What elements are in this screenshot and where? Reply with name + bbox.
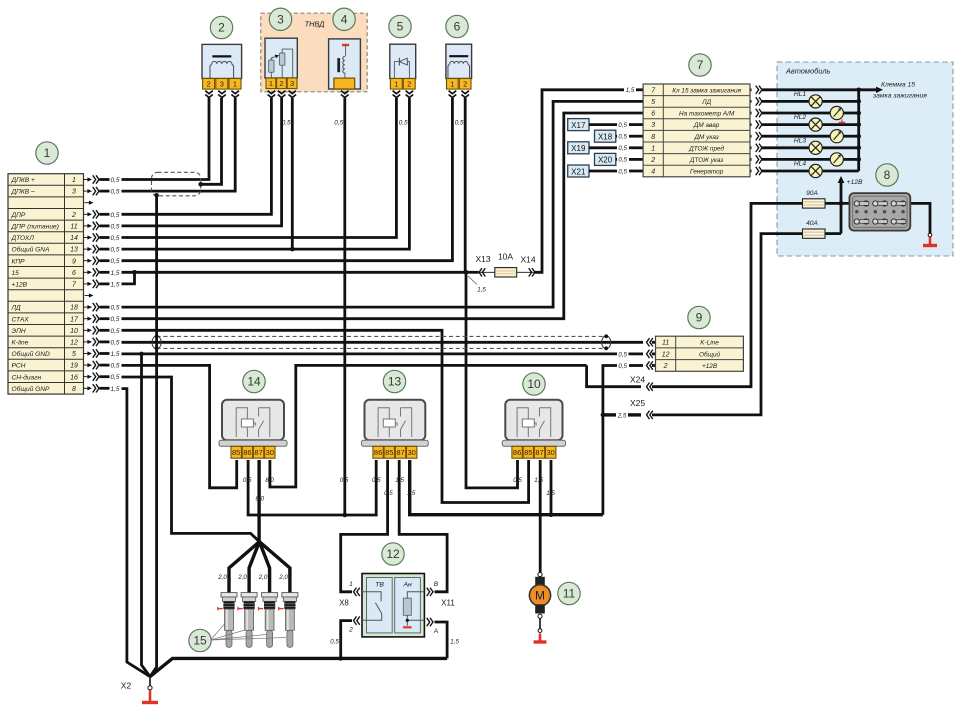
fuse F1 10A [495,268,517,277]
svg-text:На тахометр А/М: На тахометр А/М [679,111,735,118]
svg-text:2,0: 2,0 [217,574,227,581]
svg-text:8: 8 [72,386,76,393]
sensor 5 [390,44,416,78]
svg-text:0,5: 0,5 [111,328,120,335]
svg-text:Общий GND: Общий GND [12,350,51,358]
svg-text:ЛД: ЛД [11,305,22,312]
wire relay 10 pin 87 to motor 11 [539,460,542,573]
svg-text:7: 7 [697,58,704,72]
svg-text:Кл 15 замка зажигания: Кл 15 замка зажигания [672,87,741,94]
wire +12V of connector 9 down to X25 [603,366,617,515]
fuse 40A [803,229,826,238]
sensor 3 fuel pump position [265,38,297,78]
callout circle 2 [210,16,232,38]
svg-text:0,5: 0,5 [513,477,522,484]
svg-text:1,5: 1,5 [395,477,404,484]
svg-text:ЛД: ЛД [701,99,711,106]
X2 ground point [149,677,151,686]
wire sensor 2 pin 3 shield drain [201,98,222,184]
svg-text:+12В: +12В [847,179,864,186]
svg-text:87: 87 [396,448,404,457]
svg-text:4: 4 [341,13,348,27]
K-line shield dashed pair [157,335,607,337]
wire block 12 pin A to bottom bus [435,622,448,658]
svg-text:X13: X13 [475,254,490,264]
svg-text:0,5: 0,5 [340,477,349,484]
svg-text:ДТОЖ указ: ДТОЖ указ [689,157,723,164]
block 12 indicator resistor [407,592,424,598]
fuse link X13-X14 branch [466,271,479,274]
callout circle 4 [333,8,355,30]
svg-text:8,0: 8,0 [255,495,264,502]
connector 8 block [849,193,910,231]
wire K-line row to connector 9 [122,341,644,344]
svg-text:X21: X21 [571,167,586,176]
ECU connector table 1 [8,174,84,394]
svg-text:87: 87 [535,448,543,457]
svg-text:10А: 10А [498,252,513,262]
svg-text:0,5: 0,5 [111,235,120,242]
glow plug control block 12 [362,574,424,637]
callout circle 6 [446,15,468,37]
gauge rows wires [762,112,830,115]
svg-text:87: 87 [254,448,262,457]
svg-text:13: 13 [388,375,402,389]
connector 8 ground [928,233,932,237]
svg-text:М: М [535,589,545,603]
svg-text:0,5: 0,5 [455,120,464,127]
svg-text:2: 2 [71,212,76,219]
svg-text:18: 18 [70,305,78,312]
svg-text:6: 6 [454,20,461,34]
wire relay 13 pin 87 to block 12 pin B [399,460,447,592]
junction dots [132,270,137,275]
lamp rows wires [762,100,809,103]
svg-text:1: 1 [651,145,655,152]
callout circle 8 [876,164,898,186]
svg-text:14: 14 [247,375,261,389]
glow plug fan-out wires [229,542,259,594]
svg-text:11: 11 [70,224,77,231]
wire sensor 6 pin 2 down through X13 node to relay 10 pin 86 [464,98,467,272]
svg-text:85: 85 [524,448,532,457]
svg-text:0,5: 0,5 [111,177,120,184]
callout circle 10 [523,373,545,395]
svg-text:1,5: 1,5 [111,270,120,277]
svg-text:13: 13 [70,247,78,254]
wire X24 battery feed to relay 14 pin 30 [270,365,587,487]
wire X25 battery feed [603,413,616,416]
wire KPR row to sensor 6 pin 1 [122,98,453,261]
svg-text:0,5: 0,5 [384,490,393,497]
svg-text:40А: 40А [806,220,818,227]
svg-text:X19: X19 [571,144,586,153]
wire relay 10 pin 30 to bus [550,460,553,515]
connectors X17-X21 [568,119,589,131]
svg-text:ДПКВ +: ДПКВ + [11,177,36,184]
svg-text:0,5: 0,5 [618,351,627,358]
wire DPR row to sensor 3 pin 1 [122,98,272,214]
wire shield drain vertical to X2 [150,195,157,676]
svg-text:2,0: 2,0 [237,574,247,581]
callout circle 15 [189,629,211,651]
wire block 12 pin 2 to bottom bus [341,621,352,659]
svg-text:0,5: 0,5 [334,120,343,127]
svg-text:Автомобиль: Автомобиль [785,67,831,76]
wire klemma 15 feed [762,88,876,91]
svg-text:ДТОЖ пред: ДТОЖ пред [688,144,724,152]
svg-text:ДМ указ: ДМ указ [694,134,719,141]
svg-text:1,5: 1,5 [111,351,120,358]
svg-text:2: 2 [663,363,668,370]
svg-text:1: 1 [269,79,273,88]
callout circle 9 [688,306,710,328]
wire DPKV+ row to sensor 2 pin 2 [122,98,210,180]
svg-text:+12В: +12В [702,363,718,370]
wire EPN row to relay 10 pin 85 [122,330,529,502]
svg-text:K-line: K-line [12,340,29,347]
svg-text:15: 15 [12,270,20,277]
svg-text:3: 3 [290,79,294,88]
svg-text:1,5: 1,5 [407,490,416,497]
svg-text:ЭПН: ЭПН [12,328,26,335]
wire SN-diagn row to glow plug node [122,377,260,542]
instrument cluster table 7 [643,84,750,177]
svg-text:СН-диагн: СН-диагн [12,373,42,381]
svg-text:2: 2 [207,80,211,89]
svg-text:9: 9 [72,258,76,265]
svg-text:X24: X24 [630,375,645,385]
svg-text:HL3: HL3 [794,137,806,144]
svg-text:0,5: 0,5 [243,477,252,484]
svg-text:4: 4 [651,169,655,176]
svg-text:8,0: 8,0 [265,477,274,484]
svg-text:А: А [433,628,439,635]
block 12 timer switch [362,592,382,621]
wire LD row to cluster row 5 [122,101,644,307]
svg-text:0,5: 0,5 [618,168,627,175]
wire Obshchiy GNA row to sensor 5 pin 2 [122,98,410,249]
svg-text:0,5: 0,5 [618,363,627,370]
svg-text:90А: 90А [806,190,818,197]
svg-text:86: 86 [374,448,382,457]
svg-text:ТВ: ТВ [375,582,384,589]
svg-text:1,5: 1,5 [626,87,635,94]
+12V riser with arrow [840,181,843,234]
svg-text:2: 2 [407,80,411,89]
callout circle 12 [382,543,404,565]
svg-text:1: 1 [72,177,76,184]
callout circle 5 [389,15,411,37]
svg-text:K-Line: K-Line [700,340,719,347]
wire RSN row to relay 14 pin 85 [122,365,237,487]
svg-text:Генератор: Генератор [690,169,724,176]
svg-text:X2: X2 [121,681,132,691]
svg-text:Общий: Общий [699,350,721,358]
svg-text:Общий GNP: Общий GNP [12,385,51,393]
svg-text:10: 10 [70,328,78,335]
svg-text:2,0: 2,0 [258,574,268,581]
svg-text:X20: X20 [598,156,613,165]
wire STAX row to cluster row 6 [122,113,644,319]
lamp supply bus vertical [857,90,860,171]
sensor 2 crankshaft position [202,44,242,78]
svg-text:2: 2 [348,627,353,634]
svg-text:0,5: 0,5 [111,374,120,381]
svg-text:0,5: 0,5 [282,120,291,127]
svg-text:3: 3 [651,122,655,129]
svg-text:2: 2 [463,80,467,89]
wire X14 up to cluster row 7 [535,90,624,272]
svg-text:0,5: 0,5 [330,639,339,646]
svg-text:86: 86 [243,448,251,457]
callout circle 1 [36,142,58,164]
svg-text:ДТОХЛ: ДТОХЛ [11,235,35,242]
svg-text:0,5: 0,5 [618,122,627,129]
fuel pump motor 11 [538,572,542,576]
connector 8 output to ground [910,203,930,233]
Avtomobil (vehicle) dashed box [777,62,953,256]
svg-text:5: 5 [651,99,655,106]
svg-text:СТАХ: СТАХ [12,316,30,323]
motor ground [539,634,542,643]
svg-text:0,5: 0,5 [618,134,627,141]
bottom ground bus to X2 [150,658,447,676]
svg-text:2: 2 [279,79,283,88]
svg-text:11: 11 [662,340,669,347]
wire sensor 3 pin 3 to GNA node [291,98,294,249]
svg-text:0,5: 0,5 [399,120,408,127]
svg-text:замка зажигания: замка зажигания [872,93,927,100]
svg-text:РСН: РСН [12,363,26,370]
svg-text:30: 30 [408,448,416,457]
svg-text:X18: X18 [598,133,613,142]
svg-text:ДПКВ –: ДПКВ – [11,189,36,196]
svg-text:1: 1 [349,581,353,588]
wire DPKV- row to sensor 2 pin 1 [122,98,236,191]
wire relay 13 pin 85 to block 12 pin 1 [341,460,388,592]
svg-text:1: 1 [450,80,454,89]
svg-text:HL1: HL1 [794,91,806,98]
callout circle 14 [243,370,265,392]
svg-text:12: 12 [386,547,400,561]
main supply bus segment relay13-30 to X25 node [410,460,603,515]
wire Obshchiy GND row to connector 9 [122,352,618,355]
callout circle 3 [269,8,291,30]
svg-text:2,0: 2,0 [278,574,288,581]
svg-text:12: 12 [70,340,78,347]
sensor 6 [446,44,472,78]
svg-text:1,5: 1,5 [111,281,120,288]
wire row 15 to node X13 [122,271,467,274]
block 12 pin arrows [354,588,357,596]
svg-text:3: 3 [277,13,284,27]
svg-text:3: 3 [220,80,224,89]
callout circle 11 [558,582,580,604]
svg-text:1,5: 1,5 [111,386,120,393]
fuse wire 40A to +12V riser [825,232,841,235]
svg-text:Клемма 15: Клемма 15 [881,82,915,89]
fuse wire 90A to connector 8 [825,202,849,205]
svg-text:8: 8 [651,134,655,141]
svg-text:X11: X11 [441,599,455,608]
solenoid 4 fuel shutoff [329,39,361,89]
svg-text:2: 2 [650,157,655,164]
svg-text:X14: X14 [520,255,535,265]
svg-text:КПР: КПР [12,258,26,265]
TNVD high-pressure fuel pump dashed box [261,13,367,92]
fuse 90A [803,199,826,208]
svg-text:0,5: 0,5 [618,157,627,164]
gauges [830,106,843,119]
svg-text:2,5: 2,5 [617,412,627,419]
relay 14 glow plug relay [222,400,284,441]
svg-text:9: 9 [696,311,703,325]
svg-text:ДПР: ДПР [11,212,26,219]
svg-text:5: 5 [72,351,76,358]
svg-text:1: 1 [44,146,51,160]
svg-text:5: 5 [397,20,404,34]
svg-text:1: 1 [394,80,398,89]
svg-text:6: 6 [651,111,655,118]
svg-text:85: 85 [385,448,393,457]
svg-text:30: 30 [266,448,274,457]
wire solenoid 4 down to bus [343,98,346,515]
svg-text:10: 10 [527,377,541,391]
svg-text:0,5: 0,5 [111,339,120,346]
svg-text:16: 16 [70,374,78,381]
svg-text:0,5: 0,5 [111,305,120,312]
glow plugs 15 [218,593,237,648]
wire +12V row join [122,272,135,284]
svg-text:0,5: 0,5 [372,477,381,484]
svg-text:30: 30 [547,448,555,457]
callout circle 13 [383,370,405,392]
diagnostic connector table 9 [656,336,744,371]
svg-text:ДМ авар: ДМ авар [693,122,720,129]
DPKV cable shield (dashed) [152,172,201,196]
svg-text:ДПР (питание): ДПР (питание) [11,224,59,231]
svg-text:1,5: 1,5 [450,639,459,646]
svg-text:Общий GNA: Общий GNA [12,246,51,254]
callout circle 7 [689,54,711,76]
svg-text:X17: X17 [571,121,586,130]
svg-text:6: 6 [72,270,76,277]
svg-text:0,5: 0,5 [111,212,120,219]
svg-text:3: 3 [72,189,76,196]
svg-text:17: 17 [70,316,79,323]
wire DTOHL row to sensor 5 pin 1 [122,98,397,238]
svg-text:0,5: 0,5 [111,223,120,230]
svg-text:8: 8 [884,168,891,182]
svg-text:11: 11 [563,587,576,601]
svg-text:1: 1 [233,80,237,89]
svg-text:0,5: 0,5 [618,145,627,152]
svg-text:1,5: 1,5 [534,477,543,484]
svg-text:15: 15 [193,634,207,648]
leader lines from circle 15 [211,624,225,640]
bus segment relay14-86 to relay13-86 [248,460,376,515]
lamps HL1-HL4 [809,95,822,108]
svg-text:85: 85 [232,448,240,457]
wire ground GND vertical to X2 [142,354,151,677]
relay 13 [365,400,426,441]
svg-text:X8: X8 [339,599,349,608]
svg-text:2: 2 [218,21,225,35]
svg-text:Ан: Ан [402,582,412,589]
svg-text:0,5: 0,5 [111,316,120,323]
svg-text:ТНВД: ТНВД [305,20,325,29]
svg-text:0,5: 0,5 [111,247,120,254]
svg-text:+12В: +12В [12,282,28,289]
wire relay 14 pin 87 to glow plug fan-out [257,460,260,542]
svg-text:0,5: 0,5 [111,258,120,265]
svg-text:1,5: 1,5 [546,490,555,497]
gauge 1 ground mark [841,119,843,122]
cluster output wires to lamp bus [759,86,762,94]
svg-text:12: 12 [662,351,670,358]
svg-text:HL4: HL4 [794,161,806,168]
svg-text:HL2: HL2 [794,114,806,121]
svg-text:В: В [434,581,439,588]
svg-text:0,5: 0,5 [111,363,120,370]
svg-text:0,5: 0,5 [111,189,120,196]
K-line shield end oval [602,336,611,349]
svg-text:86: 86 [513,448,521,457]
relay 10 fuel pump relay [505,400,562,441]
svg-text:X25: X25 [630,398,645,408]
wire Obshchiy GNP row to X2 [122,389,151,677]
svg-text:1,5: 1,5 [477,287,486,294]
svg-text:14: 14 [70,235,78,242]
svg-text:19: 19 [70,363,78,370]
K-line shield pass-through oval [152,336,161,349]
wire DPR-power row to sensor 3 pin 2 [122,98,282,226]
